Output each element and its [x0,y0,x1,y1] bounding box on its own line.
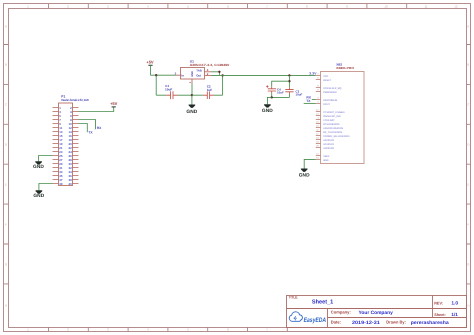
svg-text:+5V: +5V [146,60,154,65]
XB2 left pin stubs [316,75,321,159]
svg-text:A: A [467,25,469,29]
wire P1 pin4 to +5V [79,107,114,112]
wire C2 node up to 3.3V rail [222,75,224,95]
wire 3.3V rail U1 Out to XBEE VCC [212,74,316,76]
svg-text:XBEE-PRO: XBEE-PRO [336,66,355,70]
svg-text:B: B [5,63,7,67]
capacitor C3 10uF [285,87,302,96]
svg-text:AMS1117-3.3, C148490: AMS1117-3.3, C148490 [190,63,230,67]
ground (caps near XBEE) [262,97,273,113]
wire net TX to XB2 DOUT [304,102,316,104]
wire C3 down to gnd rail [288,94,290,98]
power +5V (at regulator) [146,60,154,76]
junction (cap gnd rail) [271,96,273,98]
svg-text:In: In [181,73,184,77]
wire jog to C4 [272,81,290,87]
svg-text:ASSOC/AD5/DIO5: ASSOC/AD5/DIO5 [323,127,344,130]
XB2 pin name labels [323,75,350,162]
svg-text:PWM0/RSSI: PWM0/RSSI [323,91,337,94]
ground (XBEE) [299,169,310,179]
svg-text:Sheet:: Sheet: [434,313,446,317]
wire junction down to cap rail [155,75,157,95]
wire C3 drop [288,75,290,87]
wire net RX to XB2 DIN [312,98,316,100]
svg-text:10: 10 [384,4,388,8]
ground (header pin39) [33,190,44,199]
U1 pin 3 In stub [176,74,181,76]
svg-text:39: 39 [59,182,63,186]
svg-text:E: E [467,183,469,187]
svg-text:GND: GND [299,173,310,179]
svg-text:Header-Female 2.54_2x20: Header-Female 2.54_2x20 [61,98,89,102]
svg-text:AD0/DIO0: AD0/DIO0 [323,147,335,150]
svg-text:Sheet_1: Sheet_1 [312,298,334,305]
svg-text:+5V: +5V [110,101,118,106]
svg-text:1/1: 1/1 [451,312,458,317]
title block [287,296,467,328]
svg-text:10uF: 10uF [296,92,303,96]
P1 left pin stubs (odd pins 1-39) [53,108,59,184]
U1 pin 4 TAB stub [205,71,212,73]
svg-text:Out: Out [196,73,201,77]
svg-text:TAB: TAB [196,69,202,73]
svg-text:GND: GND [186,109,197,115]
svg-text:Drawn By:: Drawn By: [386,319,406,324]
svg-text:GND: GND [323,159,329,162]
svg-text:TITLE:: TITLE: [289,296,298,300]
svg-text:RESET: RESET [323,79,332,82]
wire C4 down to gnd rail [271,93,273,97]
svg-text:AD1/DIO1: AD1/DIO1 [323,143,335,146]
svg-text:12: 12 [454,4,458,8]
wire P1 pin25 to ground [39,156,53,162]
wire U1 GND to rail [191,83,193,95]
svg-text:RF_TX/AD4/DIO4: RF_TX/AD4/DIO4 [323,131,343,134]
svg-text:2019-12-31: 2019-12-31 [352,320,380,326]
svg-text:VCC: VCC [323,75,328,78]
junction (Out node) [221,74,223,76]
svg-text:11: 11 [424,4,427,8]
wire rail to C2 [192,94,223,96]
connector P1 Header-Female 2.54_2x20 [59,95,89,186]
junction (TAB) [218,71,220,73]
wire gnd rail C4-C3 [272,96,290,98]
svg-text:10uF: 10uF [277,91,284,95]
module XB2 XBEE-PRO [321,62,365,163]
svg-text:Company:: Company: [331,309,351,314]
junction (3.3V / C3) [288,74,290,76]
svg-text:F: F [467,223,469,227]
svg-text:Date:: Date: [331,319,341,324]
svg-text:GND: GND [33,193,44,199]
svg-text:GND: GND [33,164,44,170]
svg-text:DIN/CONFIG: DIN/CONFIG [323,99,337,102]
junction (GND rail) [191,94,193,96]
wire P1 pin39 to ground [39,184,53,191]
svg-text:10uF: 10uF [165,87,172,91]
svg-text:ON/SLEEP_IND: ON/SLEEP_IND [323,115,341,118]
wire XB2 GND pin to ground [304,159,316,168]
svg-text:A: A [5,25,7,29]
svg-text:DTR/SLEEP_RQ: DTR/SLEEP_RQ [323,87,341,90]
wire +5V to U1 In [151,74,176,76]
svg-text:GND: GND [191,71,194,77]
wire P1 pin10 net TX [79,124,88,133]
P1 pin numbers [59,106,63,186]
capacitor C1 10uF [165,84,177,99]
svg-text:REV:: REV: [434,301,443,305]
capacitor C2 1uF [203,84,214,99]
svg-text:B: B [467,63,469,67]
svg-text:40: 40 [68,182,72,186]
svg-text:RTS/AD6/DIO6: RTS/AD6/DIO6 [323,123,340,126]
regulator U1 AMS1117-3.3 [181,59,230,79]
wire cap rail left [156,94,192,96]
svg-text:H: H [467,304,469,308]
ground (header pin25) [33,161,44,170]
svg-text:F: F [5,223,7,227]
svg-text:COORD_SEL/AD3/DIO3: COORD_SEL/AD3/DIO3 [323,135,350,138]
capacitor C4 10uF (polarized) [266,85,284,94]
U1 pin 2 Out stub [205,74,212,76]
svg-text:1uF: 1uF [207,88,213,92]
svg-text:Your Company: Your Company [359,310,394,316]
svg-text:CTS/DIO7_ENABLE: CTS/DIO7_ENABLE [323,111,345,114]
junction (C3/C4 tap) [288,80,290,82]
P1 right pin stubs (even pins 2-40) [73,108,79,184]
U1 pin 1 GND stub [191,79,193,83]
wire P1 pin8 net RX [79,120,96,130]
wire TAB to out node [212,72,220,76]
EasyEDA logo [289,312,326,324]
svg-text:VREF: VREF [323,155,330,158]
svg-text:DOUT: DOUT [323,103,330,106]
svg-text:VTD/LIMIT: VTD/LIMIT [323,119,335,122]
svg-text:E: E [5,183,7,187]
XB2 pin numbers [316,73,319,160]
svg-text:pererasharesha: pererasharesha [411,320,449,326]
ground (regulator) [186,95,197,115]
junction (+5V / C1) [155,74,157,76]
svg-text:1.0: 1.0 [451,301,458,307]
svg-text:H: H [5,304,7,308]
svg-text:AD2/DIO2: AD2/DIO2 [323,139,335,142]
power +5V (at header) [110,101,118,107]
svg-text:RX: RX [97,126,102,130]
svg-text:EasyEDA: EasyEDA [304,317,327,324]
svg-text:GND: GND [262,108,273,114]
